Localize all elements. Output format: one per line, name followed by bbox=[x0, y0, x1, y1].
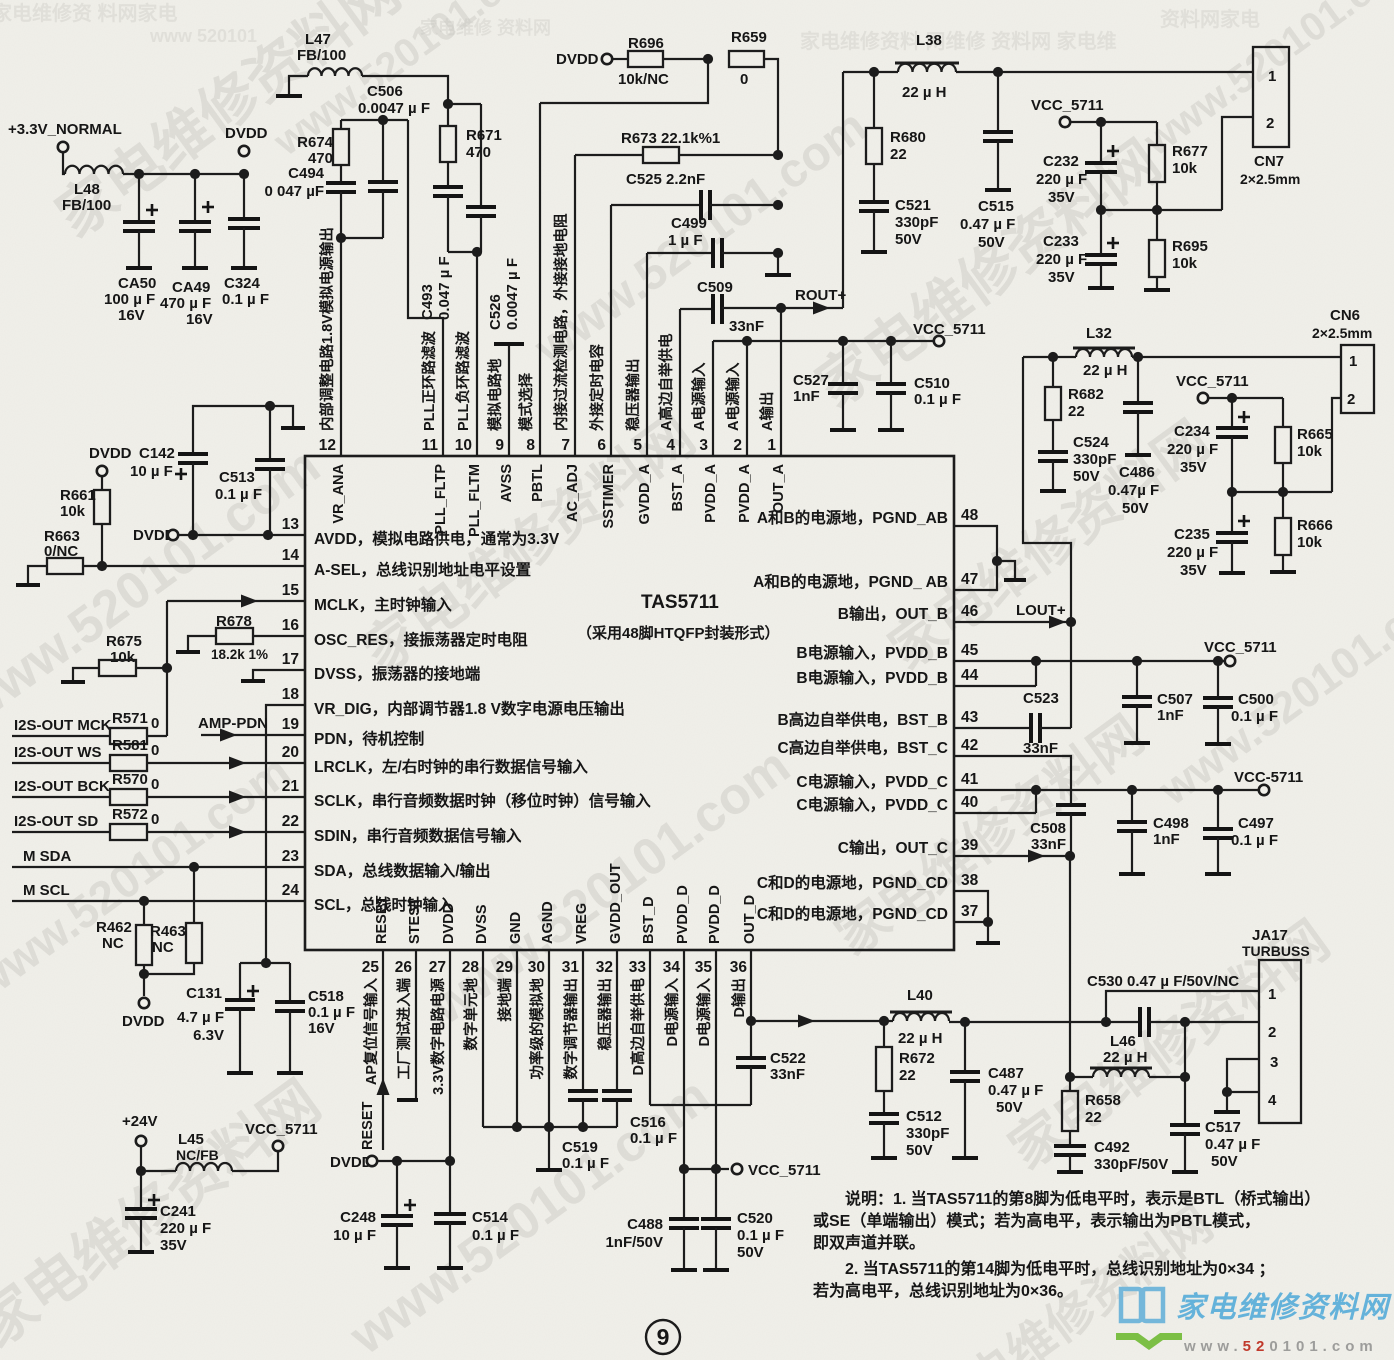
svg-text:50V: 50V bbox=[906, 1142, 933, 1159]
junction C248 top bbox=[392, 1156, 402, 1166]
svg-text:B输出，OUT_B: B输出，OUT_B bbox=[838, 604, 948, 623]
svg-text:24: 24 bbox=[282, 882, 300, 899]
capacitor C142 10uF bbox=[178, 454, 208, 463]
wire L46 right lead bbox=[1149, 1076, 1185, 1078]
polarity + C248 bbox=[404, 1199, 416, 1211]
wire C513 upper lead bbox=[269, 406, 271, 460]
inductor L46 bbox=[1090, 1068, 1152, 1077]
wire R663 left to ground bbox=[28, 566, 47, 583]
svg-text:C508: C508 bbox=[1030, 820, 1066, 837]
capacitor C498 1nF bbox=[1117, 822, 1147, 831]
svg-text:20: 20 bbox=[282, 744, 299, 761]
svg-text:SCLK，串行音频数据时钟（移位时钟）信号输入: SCLK，串行音频数据时钟（移位时钟）信号输入 bbox=[314, 791, 651, 810]
wire ROUT+ riser bbox=[842, 72, 844, 308]
svg-text:VR_ANA: VR_ANA bbox=[331, 463, 347, 523]
resistor R675 10k bbox=[99, 660, 136, 676]
svg-text:SDIN，串行音频数据信号输入: SDIN，串行音频数据信号输入 bbox=[314, 826, 522, 845]
svg-text:0.1 µ F: 0.1 µ F bbox=[562, 1155, 609, 1172]
terminal DVDD bbox=[239, 146, 249, 156]
wire C526 lower lead bbox=[480, 216, 482, 252]
svg-text:50V: 50V bbox=[1122, 500, 1149, 517]
ground C248 bbox=[384, 1266, 410, 1270]
wire pin 14 wire bbox=[83, 565, 305, 567]
wire pin 6 wire bbox=[610, 205, 612, 456]
capacitor C234 220uF bbox=[1216, 428, 1248, 437]
polarity + C142 bbox=[175, 468, 187, 480]
terminal VCC_5711 CN6 bbox=[1198, 393, 1208, 403]
wire pin44 drop bbox=[1035, 661, 1037, 686]
junction CA50 top bbox=[134, 169, 144, 179]
svg-text:42: 42 bbox=[961, 737, 978, 754]
resistor R659 0 bbox=[729, 51, 764, 67]
wire BST_D link bbox=[650, 1104, 751, 1106]
wire C515 upper lead bbox=[997, 72, 999, 132]
ground R695 bbox=[1144, 288, 1170, 292]
ground C497 bbox=[1205, 872, 1231, 876]
wire C506 upper lead bbox=[382, 120, 384, 182]
svg-text:模式选择: 模式选择 bbox=[517, 373, 535, 431]
svg-text:B高边自举供电，BST_B: B高边自举供电，BST_B bbox=[777, 710, 948, 729]
wire R671 upper lead bbox=[447, 104, 449, 126]
svg-text:OSC_RES，接振荡器定时电阻: OSC_RES，接振荡器定时电阻 bbox=[314, 630, 528, 649]
svg-text:C523: C523 bbox=[1023, 690, 1059, 707]
svg-text:10k: 10k bbox=[110, 649, 136, 666]
wire MCLK riser bbox=[166, 601, 168, 736]
svg-text:36: 36 bbox=[730, 959, 748, 976]
svg-text:29: 29 bbox=[496, 959, 514, 976]
wire C234 lower lead bbox=[1231, 437, 1233, 492]
svg-text:0.0047 µ F: 0.0047 µ F bbox=[358, 100, 430, 117]
svg-text:220 µ F: 220 µ F bbox=[160, 1220, 211, 1237]
capacitor C518 0.1uF bbox=[275, 1002, 305, 1011]
svg-text:C486: C486 bbox=[1119, 464, 1155, 481]
svg-text:I2S-OUT MCK: I2S-OUT MCK bbox=[14, 717, 112, 734]
svg-text:数字调节器输出: 数字调节器输出 bbox=[562, 978, 580, 1080]
svg-text:26: 26 bbox=[395, 959, 413, 976]
wire R678 left to ground bbox=[188, 636, 216, 650]
svg-text:0.1 µ F: 0.1 µ F bbox=[222, 291, 269, 308]
svg-text:D电源输入: D电源输入 bbox=[695, 978, 713, 1047]
terminal DVDD R696 bbox=[602, 54, 612, 64]
capacitor C514 0.1uF bbox=[434, 1214, 466, 1223]
svg-text:A电源输入: A电源输入 bbox=[724, 362, 742, 431]
svg-text:330pF: 330pF bbox=[895, 214, 938, 231]
terminal VCC-5711 C bbox=[1259, 785, 1269, 795]
svg-text:14: 14 bbox=[282, 547, 300, 564]
junction C233 top bbox=[1096, 205, 1106, 215]
svg-text:VCC_5711: VCC_5711 bbox=[748, 1162, 821, 1179]
svg-text:DVDD: DVDD bbox=[89, 445, 132, 462]
wire C487 upper lead bbox=[964, 1022, 966, 1072]
ground C512 bbox=[871, 1156, 897, 1160]
resistor R695 10k bbox=[1149, 240, 1165, 277]
capacitor C499 1uF bbox=[713, 238, 722, 268]
resistor R663 0/NC bbox=[47, 558, 83, 574]
svg-text:220 µ F: 220 µ F bbox=[1036, 251, 1087, 268]
junction C241 node bbox=[136, 1166, 146, 1176]
svg-text:A电源输入: A电源输入 bbox=[690, 362, 708, 431]
svg-text:D高边自举供电: D高边自举供电 bbox=[629, 978, 647, 1076]
junction C506 top bbox=[378, 115, 388, 125]
svg-text:4: 4 bbox=[1268, 1092, 1277, 1109]
capacitor C500 0.1uF bbox=[1203, 698, 1233, 707]
svg-text:6.3V: 6.3V bbox=[193, 1027, 224, 1044]
wire M SCL wire bbox=[12, 900, 305, 902]
svg-text:330pF: 330pF bbox=[1073, 451, 1116, 468]
terminal +24V bbox=[136, 1136, 146, 1146]
svg-text:0.47 µ F: 0.47 µ F bbox=[988, 1082, 1043, 1099]
junction R680 top bbox=[869, 67, 879, 77]
wire R661 upper lead bbox=[101, 476, 103, 490]
ground C492 bbox=[1057, 1170, 1083, 1174]
svg-text:PVDD_A: PVDD_A bbox=[737, 463, 753, 522]
wire pin 18 wire VR_DIG bbox=[266, 705, 305, 963]
junction gnd tap 38/37 bbox=[983, 917, 993, 927]
wire R666 upper lead bbox=[1282, 492, 1284, 518]
junction bbox=[679, 1164, 689, 1174]
svg-text:功率级的模拟地: 功率级的模拟地 bbox=[528, 978, 546, 1080]
junction pin44 tap bbox=[1031, 656, 1041, 666]
svg-text:PVDD_A: PVDD_A bbox=[703, 463, 719, 522]
wire R682 upper lead bbox=[1052, 357, 1054, 387]
wire to ground bbox=[987, 922, 989, 941]
svg-text:16V: 16V bbox=[186, 311, 213, 328]
wire pin 17 wire bbox=[253, 670, 305, 679]
capacitor C497 0.1uF bbox=[1203, 829, 1233, 838]
svg-text:模拟电路地: 模拟电路地 bbox=[486, 358, 504, 431]
svg-text:数字单元地: 数字单元地 bbox=[462, 978, 480, 1051]
wire C515 lower lead bbox=[997, 141, 999, 188]
svg-text:22 µ H: 22 µ H bbox=[1083, 362, 1128, 379]
svg-text:22: 22 bbox=[282, 813, 299, 830]
ground C524 bbox=[1040, 489, 1066, 493]
wire pin 39 wire OUT_C bbox=[954, 855, 1070, 857]
wire C527 upper lead bbox=[842, 341, 844, 384]
junction pin40 tap bbox=[1031, 785, 1041, 795]
resistor R572 0 bbox=[110, 824, 147, 840]
capacitor C520 0.1uF bbox=[701, 1219, 731, 1228]
svg-text:AMP-PDN: AMP-PDN bbox=[198, 715, 268, 732]
svg-text:10k: 10k bbox=[60, 503, 86, 520]
svg-text:外接定时电容: 外接定时电容 bbox=[588, 344, 606, 431]
capacitor C523 33nF bbox=[1031, 713, 1040, 743]
wire ROUT+ wire bbox=[781, 307, 843, 309]
wire C524 lower lead bbox=[1052, 461, 1054, 489]
wire C248 lower lead bbox=[396, 1225, 398, 1266]
wire C488 lower lead bbox=[683, 1228, 685, 1268]
wire R462 upper lead bbox=[143, 901, 145, 925]
inductor L48 bbox=[65, 166, 123, 174]
svg-text:C521: C521 bbox=[895, 197, 931, 214]
junction R682 top bbox=[1048, 352, 1058, 362]
svg-text:VCC_5711: VCC_5711 bbox=[913, 321, 986, 338]
wire BST_B riser bbox=[1070, 622, 1072, 728]
wire C519 lower lead bbox=[582, 1100, 584, 1127]
wire pin 34 wire PVDD_D bbox=[683, 950, 685, 1169]
wire R658 to C492 bbox=[1069, 1131, 1071, 1146]
svg-text:FB/100: FB/100 bbox=[297, 47, 346, 64]
svg-text:0.1 µ F: 0.1 µ F bbox=[914, 391, 961, 408]
svg-text:50V: 50V bbox=[996, 1099, 1023, 1116]
svg-text:C530 0.47 µ F/50V/NC: C530 0.47 µ F/50V/NC bbox=[1087, 973, 1239, 990]
svg-text:21: 21 bbox=[282, 778, 300, 795]
wire R665 lower lead bbox=[1282, 463, 1284, 492]
wire C494 lower lead bbox=[340, 192, 342, 238]
svg-text:C522: C522 bbox=[770, 1050, 806, 1067]
capacitor C519 0.1uF bbox=[568, 1091, 598, 1100]
ground C131 bbox=[227, 1071, 253, 1075]
wire R671 to C493 bbox=[447, 162, 449, 187]
junction R658 top bbox=[1065, 1072, 1075, 1082]
terminal VCC_5711 L45 bbox=[273, 1141, 283, 1151]
wire pin40 drop bbox=[1035, 790, 1037, 813]
wire C233 upper lead bbox=[1100, 210, 1102, 255]
svg-text:C248: C248 bbox=[340, 1209, 376, 1226]
ground AVSS bbox=[494, 342, 524, 346]
wire pin 27 wire DVDD bbox=[449, 950, 451, 1161]
svg-text:L46: L46 bbox=[1110, 1033, 1136, 1050]
capacitor C517 0.47uF bbox=[1170, 1125, 1200, 1134]
wire C513 lower lead bbox=[269, 469, 271, 535]
svg-text:AVDD，模拟电路供电，通常为3.3V: AVDD，模拟电路供电，通常为3.3V bbox=[314, 529, 560, 548]
svg-text:35V: 35V bbox=[1048, 189, 1075, 206]
polarity + C131 bbox=[247, 985, 259, 997]
svg-text:C234: C234 bbox=[1174, 423, 1211, 440]
svg-text:R674: R674 bbox=[297, 134, 334, 151]
wire R675 right lead bbox=[136, 667, 167, 669]
wire pin 2 wire bbox=[746, 341, 748, 456]
svg-text:12: 12 bbox=[319, 437, 336, 454]
svg-text:1: 1 bbox=[767, 437, 776, 454]
svg-text:C高边自举供电，BST_C: C高边自举供电，BST_C bbox=[777, 738, 948, 757]
wire R661 lower lead bbox=[101, 524, 103, 566]
capacitor C527 1nF bbox=[828, 384, 858, 393]
wire to CA50 bbox=[138, 174, 140, 222]
wire R666 lower lead bbox=[1282, 555, 1284, 570]
wire R658 upper lead bbox=[1069, 1077, 1071, 1091]
wire pin 16 wire bbox=[253, 635, 305, 637]
svg-text:SDA，总线数据输入/输出: SDA，总线数据输入/输出 bbox=[314, 861, 491, 880]
arrow I2S-OUT SD bbox=[229, 826, 246, 839]
svg-text:内部调整电路1.8V模拟电源输出: 内部调整电路1.8V模拟电源输出 bbox=[318, 227, 336, 431]
svg-text:1nF: 1nF bbox=[793, 388, 820, 405]
svg-text:11: 11 bbox=[422, 437, 439, 454]
wire JA17 pin4 wire bbox=[1227, 1091, 1259, 1093]
wire pin5 to C499 bbox=[647, 252, 713, 254]
svg-text:+24V: +24V bbox=[122, 1113, 157, 1130]
wire R695 upper lead bbox=[1156, 210, 1158, 240]
ground R678 bbox=[176, 650, 200, 654]
wire pin12 node link bbox=[341, 237, 383, 239]
polarity + C232 bbox=[1107, 145, 1119, 157]
capacitor C131 4.7uF bbox=[225, 1000, 255, 1009]
ground PGND_CD bbox=[976, 941, 1000, 945]
wire L47 left to ground bbox=[289, 76, 308, 94]
junction C487 top bbox=[960, 1017, 970, 1027]
resistor R680 22 bbox=[866, 128, 882, 164]
wire pin 19 wire PDN bbox=[201, 734, 305, 736]
svg-text:C524: C524 bbox=[1073, 434, 1110, 451]
wire to pin bbox=[147, 831, 305, 833]
polarity + C233 bbox=[1107, 237, 1119, 249]
svg-text:CA49: CA49 bbox=[172, 279, 210, 296]
wire C507 upper lead bbox=[1136, 661, 1138, 697]
resistor R661 10k bbox=[94, 490, 110, 524]
capacitor C521 330pF bbox=[859, 202, 889, 211]
wire C522 upper lead bbox=[750, 1021, 752, 1058]
junction bbox=[711, 1164, 721, 1174]
wire JA17 pin1 wire bbox=[1106, 991, 1259, 1022]
svg-text:C324: C324 bbox=[224, 275, 261, 292]
ground R663 bbox=[16, 583, 40, 587]
svg-text:38: 38 bbox=[961, 872, 979, 889]
svg-text:7: 7 bbox=[561, 437, 570, 454]
svg-text:AP复位信号输入: AP复位信号输入 bbox=[362, 978, 380, 1086]
wire pin 45 rail PVDD_B bbox=[954, 660, 1225, 662]
wire L46 riser bbox=[1184, 1022, 1186, 1077]
svg-text:R462: R462 bbox=[96, 919, 132, 936]
wire R695 lower lead bbox=[1156, 277, 1158, 288]
wire C498 lower lead bbox=[1131, 831, 1133, 872]
svg-text:JA17: JA17 bbox=[1252, 927, 1288, 944]
svg-text:C494: C494 bbox=[288, 165, 325, 182]
svg-text:4: 4 bbox=[666, 437, 675, 454]
capacitor CA49 470uF bbox=[179, 222, 211, 231]
arrow MCLK bbox=[241, 595, 258, 608]
svg-text:PBTL: PBTL bbox=[530, 464, 546, 502]
svg-text:M SDA: M SDA bbox=[23, 848, 72, 865]
svg-text:1nF: 1nF bbox=[1153, 831, 1180, 848]
resistor R665 10k bbox=[1275, 427, 1291, 463]
wire R462 lower lead bbox=[143, 965, 145, 996]
svg-text:C525 2.2nF: C525 2.2nF bbox=[626, 171, 705, 188]
wire to ground bbox=[1226, 1092, 1228, 1110]
svg-text:1nF: 1nF bbox=[1157, 707, 1184, 724]
wire L38 to CN7 bbox=[956, 71, 1253, 73]
junction node LOUT+ bbox=[1066, 617, 1076, 627]
junction C234 top bbox=[1227, 393, 1237, 403]
wire C521 lower lead bbox=[873, 211, 875, 250]
capacitor C488 1nF bbox=[669, 1219, 699, 1228]
svg-text:18: 18 bbox=[282, 686, 300, 703]
capacitor C525 2.2nF bbox=[701, 190, 710, 220]
wire to CA49 bbox=[194, 174, 196, 222]
resistor R678 18.2k bbox=[216, 628, 253, 644]
terminal DVDD pin13 bbox=[168, 530, 178, 540]
svg-text:GVDD_OUT: GVDD_OUT bbox=[608, 863, 624, 944]
wire C493 lower lead bbox=[447, 196, 449, 252]
capacitor C494 0.047uF bbox=[326, 183, 356, 192]
svg-text:17: 17 bbox=[282, 651, 299, 668]
wire +3.3V to L48 bbox=[63, 152, 65, 174]
svg-text:A输出: A输出 bbox=[758, 392, 776, 431]
capacitor C492 330pF bbox=[1054, 1146, 1086, 1155]
svg-text:19: 19 bbox=[282, 716, 300, 733]
wire R680 upper lead bbox=[873, 72, 875, 128]
ground C324 bbox=[231, 266, 257, 270]
wire C508 lower lead bbox=[1070, 814, 1072, 856]
svg-text:家电维修资料网: 家电维修资料网 bbox=[1176, 1291, 1392, 1324]
wire pin 9 wire bbox=[508, 346, 510, 456]
svg-text:PDN，待机控制: PDN，待机控制 bbox=[314, 729, 424, 748]
svg-text:C527: C527 bbox=[793, 372, 829, 389]
svg-text:L48: L48 bbox=[74, 181, 100, 198]
capacitor C232 220uF bbox=[1085, 163, 1117, 172]
svg-text:1: 1 bbox=[1349, 353, 1357, 370]
junction JA17 pin1 tap bbox=[1101, 1017, 1111, 1027]
junction C514 top bbox=[445, 1156, 455, 1166]
junction node R696/R659 bbox=[703, 54, 713, 64]
wire pin 30 wire AGND bbox=[548, 950, 550, 1127]
svg-text:PVDD_D: PVDD_D bbox=[707, 885, 723, 944]
svg-text:330pF/50V: 330pF/50V bbox=[1094, 1156, 1168, 1173]
wire R672 to C512 bbox=[883, 1091, 885, 1114]
svg-text:接地端: 接地端 bbox=[496, 978, 514, 1022]
wire C131 lower lead bbox=[239, 1009, 241, 1071]
wire JA17 pin2 wire bbox=[1149, 1021, 1259, 1023]
wire VCC feed R677 bbox=[1101, 121, 1157, 123]
capacitor C493 0.047uF bbox=[433, 187, 463, 196]
svg-text:C142: C142 bbox=[139, 445, 175, 462]
wire C499 to gnd node bbox=[722, 252, 778, 254]
svg-text:30: 30 bbox=[528, 959, 545, 976]
ground CA50 bbox=[126, 266, 152, 270]
svg-text:DVSS: DVSS bbox=[474, 904, 490, 944]
svg-text:VR_DIG，内部调节器1.8 V数字电源电压输出: VR_DIG，内部调节器1.8 V数字电源电压输出 bbox=[314, 699, 625, 718]
svg-text:C232: C232 bbox=[1043, 153, 1079, 170]
junction R695 top bbox=[1152, 205, 1162, 215]
junction R462 top bbox=[139, 896, 149, 906]
svg-text:RESET: RESET bbox=[360, 1102, 376, 1150]
terminal VCC_5711 A bbox=[934, 336, 944, 346]
wire VCC feed R665 bbox=[1208, 397, 1283, 399]
svg-text:L38: L38 bbox=[916, 32, 942, 49]
wire pin 3 wire bbox=[712, 341, 714, 456]
svg-text:37: 37 bbox=[961, 903, 978, 920]
ground C241 bbox=[128, 1250, 154, 1254]
wire C500 upper lead bbox=[1217, 661, 1219, 698]
svg-text:R673 22.1k%1: R673 22.1k%1 bbox=[621, 130, 720, 147]
svg-text:D电源输入: D电源输入 bbox=[663, 978, 681, 1047]
svg-text:1: 1 bbox=[1268, 986, 1276, 1003]
wire C233 lower lead bbox=[1100, 264, 1102, 286]
svg-text:C516: C516 bbox=[630, 1114, 666, 1131]
svg-text:R675: R675 bbox=[106, 633, 142, 650]
wire R463 upper lead bbox=[193, 867, 195, 923]
wire CN7 mid rail bbox=[1101, 209, 1222, 211]
connector CN7 bbox=[1253, 47, 1289, 147]
wire C523 to OUT_B bbox=[1040, 727, 1071, 729]
svg-text:C和D的电源地，PGND_CD: C和D的电源地，PGND_CD bbox=[757, 904, 948, 923]
junction R462/R463 node bbox=[139, 969, 149, 979]
svg-text:16: 16 bbox=[282, 617, 300, 634]
wire C507 lower lead bbox=[1136, 706, 1138, 741]
wire gnd chain lead bbox=[777, 253, 779, 273]
wire to L45 bbox=[141, 1170, 176, 1172]
svg-text:C510: C510 bbox=[914, 375, 950, 392]
wire pin 32 wire GVDD_OUT bbox=[616, 950, 618, 1091]
ground C515 bbox=[985, 188, 1011, 192]
resistor R581 0 bbox=[110, 755, 147, 771]
svg-text:220 µ F: 220 µ F bbox=[1036, 171, 1087, 188]
svg-text:50V: 50V bbox=[895, 231, 922, 248]
junction R661/R663 node bbox=[97, 561, 107, 571]
svg-text:39: 39 bbox=[961, 837, 979, 854]
wire C520 lower lead bbox=[715, 1228, 717, 1268]
polarity + CA49 bbox=[202, 201, 214, 213]
svg-text:A-SEL，总线识别地址电平设置: A-SEL，总线识别地址电平设置 bbox=[314, 560, 531, 579]
svg-text:C电源输入，PVDD_C: C电源输入，PVDD_C bbox=[796, 795, 948, 814]
